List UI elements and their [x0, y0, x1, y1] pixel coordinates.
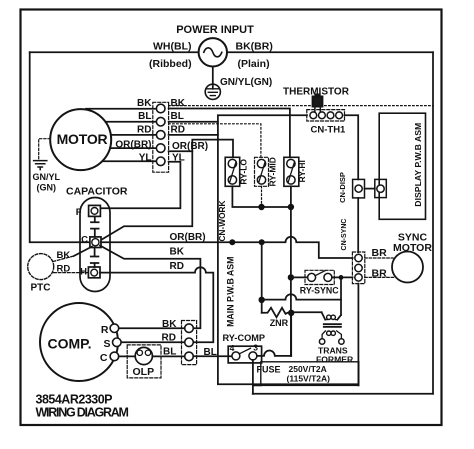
svg-text:CN-WORK: CN-WORK	[217, 200, 227, 241]
wire: CN-DISP down to CN-SYNC	[357, 198, 359, 252]
label BR (bottom)	[372, 267, 388, 279]
label YL (left of connector)	[139, 152, 152, 163]
label H	[80, 267, 87, 278]
node: RY-HI common junction	[288, 204, 294, 210]
relay RY-COMP	[228, 343, 261, 363]
label RY-HI	[297, 160, 307, 182]
wire: RY-SYNC to CN-SYNC pin 3	[332, 276, 353, 278]
varistor ZNR	[262, 308, 292, 318]
node: OR wire junction 1	[229, 239, 235, 245]
wire OR(BR): motor to connector	[110, 147, 156, 149]
label OR(BR) (left of connector)	[115, 140, 151, 151]
label TRANS	[318, 345, 348, 355]
thermistor RT1	[313, 95, 323, 112]
label RD (PTC)	[57, 264, 71, 275]
svg-text:(GN): (GN)	[37, 183, 57, 193]
svg-text:BR: BR	[372, 247, 388, 259]
svg-text:RY-COMP: RY-COMP	[223, 333, 266, 343]
svg-text:BK: BK	[170, 247, 185, 258]
wire: CN-TH1 to CN-DISP	[345, 115, 359, 179]
wire OR(BR) branch down to capacitor C link	[98, 151, 193, 242]
label ZNR	[270, 318, 289, 328]
label BL (comp connector)	[163, 347, 176, 358]
svg-text:RD: RD	[171, 124, 185, 135]
label CN-DISP	[338, 172, 347, 203]
label F	[76, 207, 82, 218]
svg-text:PTC: PTC	[31, 283, 51, 294]
svg-text:3854AR2330P: 3854AR2330P	[36, 393, 113, 407]
wire: fuse output up to ZNR node	[290, 313, 292, 356]
svg-text:3: 3	[253, 343, 258, 353]
svg-text:BK: BK	[57, 250, 71, 261]
wire: CN-SYNC down to neutral rail	[357, 284, 359, 386]
label RD (left of connector)	[137, 124, 151, 135]
earth ground symbol (protective earth)	[205, 84, 220, 99]
label RD (comp connector)	[162, 333, 176, 344]
label WH(BL)	[153, 41, 191, 53]
svg-text:GN/YL(GN): GN/YL(GN)	[220, 77, 272, 88]
relay RY-LO	[225, 157, 240, 186]
svg-text:S: S	[103, 338, 110, 350]
label RY-MID	[268, 157, 278, 186]
svg-text:BR: BR	[372, 267, 388, 279]
svg-text:CN-TH1: CN-TH1	[311, 125, 347, 136]
wire YL: motor to connector	[102, 160, 156, 162]
text POWER INPUT	[176, 24, 254, 36]
wire YL: connector down to capacitor F	[101, 162, 180, 208]
svg-text:OR(BR): OR(BR)	[115, 140, 151, 151]
label GN/YL(GN)	[220, 77, 272, 88]
label THERMISTOR	[283, 87, 350, 98]
label BK (left of connector)	[137, 98, 152, 109]
label CN-TH1	[311, 125, 347, 136]
svg-text:RD: RD	[137, 124, 151, 135]
svg-text:BL: BL	[163, 347, 176, 358]
node: transformer feed junction	[259, 297, 265, 303]
svg-text:BK: BK	[162, 319, 177, 330]
svg-text:MAIN P.W.B ASM: MAIN P.W.B ASM	[225, 257, 235, 327]
svg-text:ZNR: ZNR	[270, 318, 289, 328]
connector CN-MOTOR (5-pin, dashed)	[153, 102, 169, 172]
wire: RY-MID bottom (dotted)	[261, 186, 263, 207]
relay RY-HI	[284, 157, 299, 186]
svg-text:RY-MID: RY-MID	[268, 157, 278, 186]
wire: power rail bottom right	[253, 393, 433, 395]
label RY-SYNC	[300, 286, 339, 296]
label BK (right of connector)	[171, 98, 186, 109]
svg-text:RD: RD	[162, 333, 176, 344]
label BK (capacitor to comp)	[170, 247, 185, 258]
label (Ribbed)	[149, 58, 192, 70]
wire: RY-COMP pin 3 down to neutral rail	[252, 360, 254, 386]
node: OR wire junction 2 (to ZNR branch)	[259, 239, 265, 245]
label FORMER	[316, 355, 354, 365]
label CAPACITOR	[66, 186, 128, 198]
label WIRING DIAGRAM	[36, 406, 129, 420]
svg-text:(115V/T2A): (115V/T2A)	[287, 373, 331, 383]
node: RY-SYNC feed junction	[288, 274, 294, 280]
label BR (top)	[372, 247, 388, 259]
OLP (overload protector, dashed box)	[127, 345, 161, 378]
label BK(BR)	[236, 41, 273, 53]
svg-text:FORMER: FORMER	[316, 355, 354, 365]
wire OR(BR): connector to RY-LO feed	[169, 140, 233, 158]
relay RY-SYNC (dashed)	[305, 270, 334, 284]
svg-text:COMP.: COMP.	[47, 336, 91, 352]
display board DISPLAY P.W.B ASM	[379, 113, 425, 219]
svg-text:F: F	[76, 207, 82, 218]
wire BK: motor top to connector	[86, 108, 156, 110]
svg-text:C: C	[100, 352, 108, 364]
wire: motor ground stub (dashed)	[39, 139, 51, 159]
svg-text:CN-DISP: CN-DISP	[338, 172, 347, 203]
node: ZNR right junction	[288, 310, 294, 316]
sync motor M2	[392, 252, 423, 283]
label OR(BR) (right of connector)	[172, 141, 208, 152]
transformer T1	[319, 312, 344, 344]
svg-text:(Plain): (Plain)	[238, 58, 270, 70]
wire: OR junction down to ZNR / transformer node	[261, 242, 263, 313]
label (Plain)	[238, 58, 270, 70]
wire RD: PTC to capacitor H (dashed)	[54, 272, 89, 274]
wire: bottom neutral run to CN-SYNC riser	[253, 383, 359, 385]
svg-text:DISPLAY P.W.B ASM: DISPLAY P.W.B ASM	[413, 123, 423, 207]
label BL (right of connector)	[171, 111, 184, 122]
wire BK: capacitor C to compressor R	[100, 246, 200, 329]
wire BK: PTC to capacitor C (dashed then diagonal)	[53, 247, 92, 262]
svg-text:OR(BR): OR(BR)	[170, 232, 206, 243]
AC source symbol	[199, 38, 227, 66]
label S	[103, 338, 110, 350]
wire: junction to transformer primary right (with hop over riser)	[262, 294, 341, 315]
svg-text:RY-HI: RY-HI	[297, 160, 307, 182]
label R	[101, 324, 109, 336]
wire BL: connector to RY-COMP pin 4	[193, 355, 232, 357]
wire OR(BR): capacitor C to CN-SYNC pin 1 (with hop)	[101, 237, 353, 258]
wire RD: connector to vertical	[169, 134, 218, 136]
svg-text:C: C	[81, 235, 88, 246]
svg-text:BL: BL	[171, 111, 184, 122]
node: transformer primary tap	[339, 275, 344, 280]
wire BL: motor to connector	[106, 121, 157, 123]
svg-text:BK: BK	[137, 98, 152, 109]
label BL (left of connector)	[138, 111, 151, 122]
svg-text:POWER INPUT: POWER INPUT	[176, 24, 254, 36]
wire: power rail left side (WH conductor down to capacitor C)	[30, 52, 90, 242]
motor M1	[50, 109, 111, 170]
wire: transformer primary right lead up to RY-SYNC wire	[340, 277, 342, 299]
svg-text:BK: BK	[171, 98, 186, 109]
relay RY-MID (dashed)	[255, 157, 269, 186]
label PTC	[31, 283, 51, 294]
wire: power rail top (WH side, left of AC source)	[30, 51, 199, 53]
wire: junction to RY-SYNC	[291, 276, 308, 278]
svg-text:MOTOR: MOTOR	[57, 131, 108, 147]
wire: stub to power rail bottom	[252, 385, 254, 393]
svg-text:WIRING DIAGRAM: WIRING DIAGRAM	[36, 406, 129, 420]
connector CN-SYNC (3-pin, dashed)	[352, 252, 364, 284]
wire BL: connector to CN-WORK vertical	[169, 121, 218, 123]
label FUSE	[257, 364, 281, 374]
label RY-COMP	[223, 333, 266, 343]
fuse F1 (bump on wire)	[257, 350, 291, 355]
label C	[100, 352, 108, 364]
wire BK dotted companion to right rail	[169, 105, 433, 107]
label OR(BR) (capacitor)	[170, 232, 206, 243]
svg-text:RY-LO: RY-LO	[239, 159, 249, 185]
svg-text:CAPACITOR: CAPACITOR	[66, 186, 128, 198]
svg-text:FUSE: FUSE	[257, 364, 281, 374]
label CN-WORK	[217, 200, 227, 241]
label 3854AR2330P	[36, 393, 113, 407]
label YL (right of connector)	[172, 153, 185, 164]
compressor COMP	[40, 303, 121, 381]
capacitor C1 (3-terminal, stadium body)	[80, 198, 110, 292]
wire BL dotted branch to RY-MID	[169, 124, 261, 158]
wire: power rail right side	[432, 52, 434, 394]
wire RD: motor to connector	[111, 134, 156, 136]
label BK (comp connector)	[162, 319, 177, 330]
svg-text:4: 4	[230, 343, 235, 353]
wire: relay common bus	[232, 186, 291, 207]
label RD (capacitor to comp)	[170, 261, 184, 272]
wire BR: CN-SYNC pin3 to sync motor (dashed)	[365, 276, 395, 278]
label 250V/T2A	[289, 364, 327, 374]
wire: RY-HI bottom to main vertical	[290, 186, 292, 207]
svg-text:BK(BR): BK(BR)	[236, 41, 273, 53]
label C	[81, 235, 88, 246]
label CN-SYNC	[341, 219, 348, 251]
label GN/YL (GN)	[33, 172, 61, 193]
svg-text:RD: RD	[170, 261, 184, 272]
svg-text:CN-SYNC: CN-SYNC	[341, 219, 348, 251]
label BK (PTC)	[57, 250, 71, 261]
label BL (right of comp connector)	[204, 347, 217, 358]
wire: AC source to earth ground	[212, 67, 214, 89]
svg-text:OLP: OLP	[133, 366, 155, 378]
svg-text:R: R	[101, 324, 109, 336]
connector CN-TH1 (4-pin, dashed)	[307, 110, 345, 121]
svg-text:RY-SYNC: RY-SYNC	[300, 286, 339, 296]
wire BL: compressor C through OLP to connector	[119, 355, 185, 357]
label SYNC	[398, 232, 428, 244]
wire: ZNR node to transformer primary left	[291, 311, 321, 313]
svg-text:RD: RD	[57, 264, 71, 275]
wire: power rail top (BK(BR) side, right of AC source)	[227, 51, 433, 53]
svg-text:BL: BL	[138, 111, 151, 122]
label RD (right of connector)	[171, 124, 185, 135]
label (115V/T2A)	[287, 373, 331, 383]
node: RY-MID common junction	[258, 204, 264, 210]
wire: main vertical x=291 (relay common down to fuse output)	[290, 207, 292, 356]
fuse rating label box	[253, 362, 359, 386]
svg-text:YL: YL	[139, 152, 152, 163]
svg-text:GN/YL: GN/YL	[33, 172, 61, 182]
wire BR: CN-SYNC pin1 to sync motor (dashed)	[365, 257, 393, 259]
wire: CN-TH1 feed with long vertical (to bottom)	[218, 115, 307, 384]
wire BK: connector to RY-HI feed	[169, 109, 290, 158]
wire RD: capacitor H to compressor S (with hop)	[100, 267, 213, 342]
label MOTOR (sync)	[393, 242, 432, 254]
connector CN-DISP (2 sockets)	[353, 179, 387, 198]
label MAIN P.W.B ASM	[225, 257, 235, 327]
PTC (dashed circle)	[28, 254, 54, 280]
connector CN-COMP (3-pin, dashed)	[182, 321, 197, 365]
svg-text:(Ribbed): (Ribbed)	[149, 58, 192, 70]
svg-text:WH(BL): WH(BL)	[153, 41, 191, 53]
label RY-LO	[239, 159, 249, 185]
ground (motor chassis)	[34, 161, 47, 170]
